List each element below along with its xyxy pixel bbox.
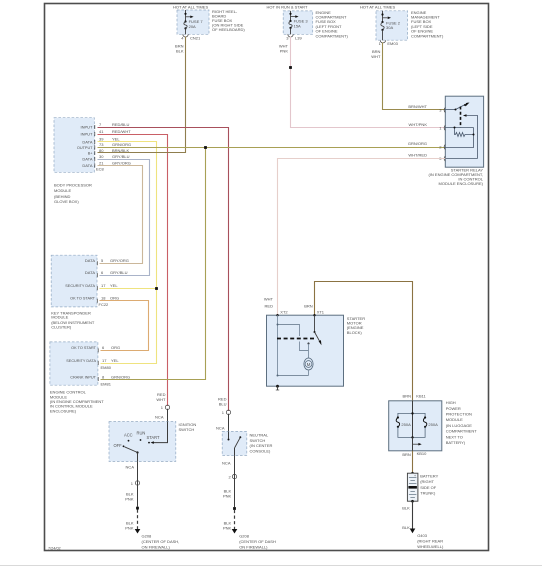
ignition switch contacts bbox=[114, 431, 161, 449]
svg-text:20A: 20A bbox=[189, 24, 196, 29]
neutral switch contacts and arm bbox=[228, 431, 242, 455]
neutral output to ground G208 bbox=[222, 455, 237, 507]
svg-text:DATA: DATA bbox=[85, 258, 95, 263]
svg-text:NEXT TO: NEXT TO bbox=[446, 434, 463, 439]
svg-text:GRY/ORG: GRY/ORG bbox=[112, 160, 131, 165]
wire GRY/BLU body pin 30 to key transponder pin 6 bbox=[98, 160, 150, 276]
svg-text:GRN/ORG: GRN/ORG bbox=[111, 374, 130, 379]
svg-text:L39: L39 bbox=[295, 35, 302, 40]
svg-text:G403: G403 bbox=[417, 533, 428, 538]
svg-text:EM80: EM80 bbox=[101, 365, 112, 370]
relay wire labels bbox=[408, 104, 428, 158]
wire GRN/ORG body pin 73 to starter relay pin 2 bbox=[98, 147, 446, 149]
svg-text:NCA: NCA bbox=[222, 461, 231, 466]
svg-text:(CENTER OF DASH: (CENTER OF DASH bbox=[239, 539, 276, 544]
svg-text:POWER: POWER bbox=[446, 406, 461, 411]
svg-text:YEL: YEL bbox=[110, 283, 118, 288]
svg-text:COMPARTMENT: COMPARTMENT bbox=[446, 429, 478, 434]
pin 18 label ORG bbox=[101, 295, 119, 300]
svg-text:SWITCH: SWITCH bbox=[250, 438, 266, 443]
svg-text:DATA: DATA bbox=[82, 139, 92, 144]
svg-text:PNK: PNK bbox=[223, 525, 232, 530]
svg-text:NCA: NCA bbox=[126, 465, 135, 470]
page bottom rule bbox=[0, 565, 542, 567]
svg-text:ORG: ORG bbox=[110, 295, 119, 300]
wire WHT/RED relay pin 5 to starter motor terminal XT2 bbox=[264, 159, 445, 316]
svg-text:WHT: WHT bbox=[371, 54, 381, 59]
starter motor winding M bbox=[277, 351, 314, 377]
svg-text:30A: 30A bbox=[386, 25, 393, 30]
svg-text:YEL: YEL bbox=[111, 358, 119, 363]
connector 3 L39 bbox=[286, 34, 302, 40]
svg-text:G208: G208 bbox=[239, 534, 250, 539]
svg-text:PNK: PNK bbox=[125, 496, 134, 501]
ECM pin ticks bbox=[97, 348, 99, 381]
svg-text:DATA: DATA bbox=[85, 270, 95, 275]
high power protection module U4 bbox=[389, 393, 478, 451]
relay pin numbers and connectors bbox=[439, 108, 445, 162]
svg-text:HOT AT ALL TIMES: HOT AT ALL TIMES bbox=[173, 5, 208, 10]
svg-text:(IN LUGGAGE: (IN LUGGAGE bbox=[446, 423, 473, 428]
svg-text:RUN: RUN bbox=[137, 431, 146, 436]
starter solenoid dashed link bbox=[277, 338, 316, 340]
wire YEL body pin 39 to security data junction and ECM pin 17 bbox=[98, 142, 157, 364]
svg-text:OUTPUT: OUTPUT bbox=[77, 146, 93, 150]
starter solenoid contact wiring bbox=[278, 315, 309, 375]
svg-text:NEUTRAL: NEUTRAL bbox=[250, 433, 269, 438]
svg-text:FC22: FC22 bbox=[99, 302, 110, 307]
svg-text:WHEELWELL): WHEELWELL) bbox=[417, 544, 444, 549]
fuse 250A right bbox=[423, 416, 438, 433]
terminal XT1 bbox=[313, 310, 325, 317]
svg-text:GLOVE BOX): GLOVE BOX) bbox=[54, 199, 79, 204]
fuse box F2 (engine management fuse box) bbox=[360, 5, 444, 41]
svg-text:BRN: BRN bbox=[304, 304, 313, 309]
svg-text:(RIGHT: (RIGHT bbox=[420, 479, 434, 484]
svg-text:M: M bbox=[307, 362, 311, 367]
svg-text:PNK: PNK bbox=[223, 493, 232, 498]
svg-text:BODY PROCESSOR: BODY PROCESSOR bbox=[54, 183, 92, 188]
svg-text:MODULE: MODULE bbox=[446, 417, 463, 422]
svg-text:NCA: NCA bbox=[216, 426, 225, 431]
border frame bbox=[45, 4, 489, 551]
svg-text:21: 21 bbox=[99, 160, 104, 165]
svg-text:GRY/BLU: GRY/BLU bbox=[112, 154, 130, 159]
wire label RED/BLU at neutral switch bbox=[218, 396, 227, 406]
svg-text:DATA: DATA bbox=[82, 163, 92, 168]
svg-text:OF HEELBOARD): OF HEELBOARD) bbox=[212, 27, 245, 32]
connector 1 EM03 bbox=[379, 40, 399, 46]
svg-text:BRN: BRN bbox=[402, 452, 411, 457]
svg-text:PROTECTION: PROTECTION bbox=[446, 412, 472, 417]
starter motor M1 bbox=[267, 315, 366, 386]
neutral switch S2 bbox=[222, 431, 272, 455]
svg-text:17: 17 bbox=[102, 358, 107, 363]
dashed BLK/PNK to ground bbox=[125, 510, 137, 531]
svg-text:INPUT: INPUT bbox=[81, 131, 94, 136]
wire WHT/PNK fuse F3 to starter relay pin 1 bbox=[279, 37, 445, 128]
starter case ground stub bbox=[276, 385, 279, 390]
fuse F3 15A element bbox=[289, 11, 309, 34]
svg-text:NCA: NCA bbox=[155, 415, 164, 420]
splice S1 bbox=[136, 507, 139, 510]
svg-text:CRANK INPUT: CRANK INPUT bbox=[70, 375, 96, 379]
dashed BLK/PNK to ground (neutral) bbox=[223, 510, 235, 530]
svg-text:TRUNK): TRUNK) bbox=[420, 491, 436, 496]
svg-text:(CENTER OF DASH,: (CENTER OF DASH, bbox=[142, 539, 180, 544]
svg-text:ON FIREWALL): ON FIREWALL) bbox=[239, 545, 268, 550]
relay actuator dashed link bbox=[460, 107, 462, 128]
connector 1 at ignition switch bbox=[155, 405, 170, 422]
svg-text:HOT IN RUN & START: HOT IN RUN & START bbox=[267, 5, 308, 10]
svg-text:SWITCH: SWITCH bbox=[179, 427, 195, 432]
key transponder module U2 bbox=[51, 255, 109, 329]
svg-text:G208: G208 bbox=[142, 534, 153, 539]
wire BRN starter XT1 to high power protection module bbox=[304, 282, 412, 401]
svg-text:250A: 250A bbox=[401, 422, 411, 427]
svg-text:ENCLOSURE): ENCLOSURE) bbox=[50, 408, 77, 413]
junction GRN/ORG bbox=[204, 146, 207, 149]
wire label RED/WHT at ignition switch bbox=[156, 392, 166, 402]
junction YEL bbox=[155, 287, 158, 290]
body processor module U1 bbox=[54, 118, 105, 204]
pin 5 label GRY/ORG bbox=[101, 258, 129, 263]
wire GRN/ORG branch to ECM crank input bbox=[101, 148, 206, 380]
wire BRN/BLK fuse F7 to body processor pin 80 bbox=[98, 37, 186, 153]
svg-text:EC8: EC8 bbox=[96, 167, 105, 172]
svg-text:BRN: BRN bbox=[403, 393, 412, 398]
svg-text:PNK: PNK bbox=[280, 49, 289, 54]
connector 1 at neutral switch bbox=[216, 410, 231, 431]
ground G208 (neutral) bbox=[232, 529, 276, 550]
svg-text:HOT AT ALL TIMES: HOT AT ALL TIMES bbox=[360, 5, 395, 10]
svg-text:(RIGHT REAR: (RIGHT REAR bbox=[417, 539, 443, 544]
pin 39 label YEL bbox=[99, 137, 120, 142]
svg-text:ON FIREWALL): ON FIREWALL) bbox=[142, 545, 171, 550]
wire RED/WHT body pin 41 to ignition switch bbox=[98, 135, 168, 406]
svg-text:OK TO START: OK TO START bbox=[70, 296, 96, 300]
svg-text:BATTERY): BATTERY) bbox=[446, 440, 466, 445]
svg-text:B+: B+ bbox=[88, 151, 94, 155]
pin 30 label GRY/BLU bbox=[99, 154, 130, 159]
svg-text:GRY/ORG: GRY/ORG bbox=[110, 258, 129, 263]
splice S2 bbox=[233, 507, 236, 510]
fuse F2 30A element bbox=[381, 11, 401, 40]
svg-text:SIDE OF: SIDE OF bbox=[420, 485, 437, 490]
starter relay K1 bbox=[428, 96, 483, 186]
svg-text:73: 73 bbox=[99, 142, 104, 147]
svg-text:OK TO START: OK TO START bbox=[71, 346, 97, 350]
wire RED/BLU body pin 7 to neutral switch bbox=[98, 128, 229, 411]
wire GRY/ORG body pin 21 to key transponder pin 5 bbox=[98, 166, 143, 264]
svg-text:COMPARTMENT): COMPARTMENT) bbox=[316, 33, 349, 38]
wire BLK battery to ground bbox=[402, 501, 412, 530]
splice on WHT/PNK wire bbox=[289, 66, 292, 69]
ignition output to ground G208 bbox=[125, 461, 139, 506]
pin 17 label YEL (ECM) bbox=[102, 358, 119, 363]
svg-text:BLOCK): BLOCK) bbox=[347, 330, 363, 335]
svg-text:GRN/ORG: GRN/ORG bbox=[408, 141, 427, 146]
svg-text:BRN/WHT: BRN/WHT bbox=[408, 104, 427, 109]
wire ORG transponder pin 18 to ECM pin 6 bbox=[100, 301, 149, 351]
svg-text:BLK: BLK bbox=[176, 49, 184, 54]
pin 6 label GRY/BLU bbox=[101, 270, 128, 275]
svg-text:(IN CENTER: (IN CENTER bbox=[250, 443, 273, 448]
svg-text:ORG: ORG bbox=[111, 345, 120, 350]
module internal fuse loop bbox=[398, 401, 425, 438]
svg-text:7/24/02: 7/24/02 bbox=[48, 547, 61, 551]
relay coil (pins 1-2) bbox=[445, 128, 473, 148]
svg-text:SECURITY DATA: SECURITY DATA bbox=[65, 284, 95, 288]
svg-text:YEL: YEL bbox=[112, 137, 120, 142]
body module pin ticks bbox=[94, 125, 96, 168]
svg-text:18: 18 bbox=[101, 295, 106, 300]
svg-text:MODULE: MODULE bbox=[51, 315, 68, 320]
battery BAT1 bbox=[407, 472, 438, 503]
ignition switch S1 bbox=[109, 422, 196, 462]
svg-text:WHT/PNK: WHT/PNK bbox=[409, 122, 428, 127]
pin 8 label GRN/ORG (ECM) bbox=[102, 374, 130, 379]
svg-text:KB10: KB10 bbox=[417, 451, 428, 456]
module output arrow bbox=[413, 437, 422, 450]
svg-text:PNK: PNK bbox=[125, 525, 134, 530]
svg-text:EM81: EM81 bbox=[101, 382, 112, 387]
ignition switch arm bbox=[125, 447, 139, 462]
pin 7 label RED/BLU bbox=[99, 122, 129, 127]
pin 21 label GRY/ORG bbox=[99, 160, 131, 165]
svg-text:EM03: EM03 bbox=[387, 41, 398, 46]
svg-text:250A: 250A bbox=[428, 422, 438, 427]
svg-text:(BEHIND: (BEHIND bbox=[54, 194, 71, 199]
svg-text:SECURITY DATA: SECURITY DATA bbox=[66, 359, 96, 363]
svg-text:GRN/ORG: GRN/ORG bbox=[112, 142, 131, 147]
pin 73 label GRN/ORG bbox=[99, 142, 131, 147]
starter switch arm from XT1 bbox=[314, 315, 322, 345]
svg-text:WHT/RED: WHT/RED bbox=[408, 153, 427, 158]
svg-text:+: + bbox=[414, 474, 416, 478]
ground G403 bbox=[410, 529, 444, 550]
svg-text:RED/BLU: RED/BLU bbox=[112, 122, 129, 127]
wire BRN module to battery bbox=[402, 451, 427, 473]
svg-text:CN21: CN21 bbox=[190, 35, 201, 40]
svg-text:15A: 15A bbox=[294, 23, 301, 28]
svg-text:KB11: KB11 bbox=[416, 393, 426, 398]
pin 6 label ORG bbox=[102, 345, 120, 350]
svg-text:RED/WHT: RED/WHT bbox=[112, 129, 131, 134]
svg-text:OFF: OFF bbox=[114, 443, 123, 448]
terminal XT2 bbox=[276, 310, 288, 317]
wire BRN/BLK body pin 80 stub (joins fuse F7 drop) bbox=[98, 152, 186, 154]
pin 17 label YEL bbox=[101, 283, 118, 288]
svg-text:XT1: XT1 bbox=[317, 310, 325, 315]
wire BRN/WHT fuse F2 to starter relay pin 3 bbox=[371, 42, 445, 109]
ground G208 (ignition) bbox=[135, 529, 180, 550]
fuse 250A left bbox=[396, 416, 411, 433]
svg-text:ACC: ACC bbox=[124, 432, 133, 437]
svg-text:START: START bbox=[147, 435, 161, 440]
svg-text:WHT: WHT bbox=[264, 297, 274, 302]
svg-text:41: 41 bbox=[99, 129, 104, 134]
connector 4 CN21 bbox=[181, 34, 201, 40]
fuse F7 20A element bbox=[184, 10, 204, 34]
pin 41 label RED/WHT bbox=[99, 129, 131, 134]
svg-text:COMPARTMENT): COMPARTMENT) bbox=[411, 33, 444, 38]
fuse box F7 (right heelboard fuse box) bbox=[173, 5, 245, 35]
transponder pin ticks bbox=[96, 261, 98, 302]
pin 80 label BRN/BLK bbox=[99, 148, 129, 153]
svg-text:CLUSTER): CLUSTER) bbox=[51, 324, 72, 329]
svg-text:CONSOLE): CONSOLE) bbox=[250, 448, 272, 453]
svg-text:DATA: DATA bbox=[82, 157, 92, 162]
svg-text:INPUT: INPUT bbox=[81, 124, 94, 129]
svg-text:39: 39 bbox=[99, 137, 104, 142]
svg-text:XT2: XT2 bbox=[280, 310, 288, 315]
svg-text:HIGH: HIGH bbox=[446, 400, 456, 405]
svg-text:GRY/BLU: GRY/BLU bbox=[110, 270, 128, 275]
svg-text:MODULE ENCLOSURE): MODULE ENCLOSURE) bbox=[439, 181, 484, 186]
svg-text:30: 30 bbox=[99, 154, 104, 159]
svg-text:WHT: WHT bbox=[156, 397, 166, 402]
svg-text:RED: RED bbox=[265, 304, 274, 309]
ignition switch feed wire to START bbox=[151, 422, 168, 444]
fuse box F3 (engine compartment fuse box) bbox=[267, 5, 349, 39]
svg-text:17: 17 bbox=[101, 283, 106, 288]
svg-text:BLK: BLK bbox=[402, 525, 410, 530]
svg-text:BLU: BLU bbox=[219, 401, 227, 406]
wire YEL transponder pin 17 to junction bbox=[100, 288, 157, 290]
svg-text:BLK: BLK bbox=[402, 506, 410, 511]
svg-text:MODULE: MODULE bbox=[54, 188, 71, 193]
engine control module U3 bbox=[50, 342, 112, 414]
svg-text:BATTERY: BATTERY bbox=[420, 474, 438, 479]
relay internal switch (pins 3-5) bbox=[445, 103, 477, 159]
